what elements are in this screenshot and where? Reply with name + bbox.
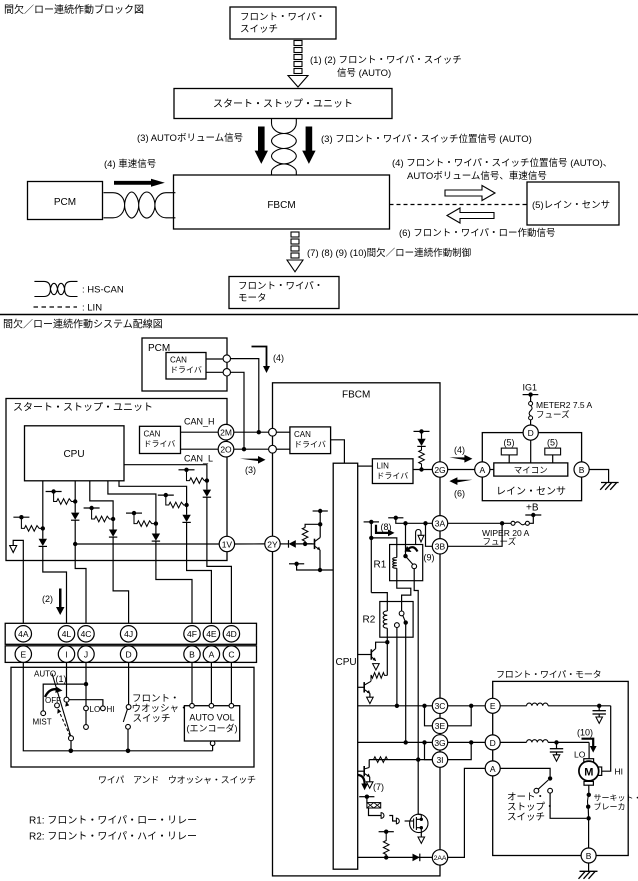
cell1 junction (41, 526, 45, 530)
cell5 diode (186, 505, 188, 515)
pin 2G (432, 462, 447, 477)
arrow (4) at PCM (252, 347, 267, 368)
svg-text:(10): (10) (577, 728, 593, 738)
svg-text:(6) フロント・ワイパ・ロー作動信号: (6) フロント・ワイパ・ロー作動信号 (399, 227, 556, 239)
IG1 tap (523, 394, 539, 396)
transistor T1 (358, 654, 372, 656)
svg-text:ドライバ: ドライバ (294, 440, 326, 449)
wire 4F jog (156, 561, 192, 626)
washer wire to rail (127, 729, 129, 751)
wire rotor to rail (70, 741, 72, 751)
svg-text:モータ: モータ (238, 293, 267, 304)
3E external branch (448, 706, 472, 726)
svg-text:HI: HI (107, 705, 115, 714)
pin 4A (15, 626, 31, 642)
1V rail (75, 543, 219, 545)
transistor T3 (368, 760, 370, 768)
junction 1V rail (73, 542, 77, 546)
PCM pin circle lower (206, 371, 223, 373)
svg-text:CAN: CAN (294, 430, 311, 439)
pin 4J (120, 626, 136, 642)
SSU CAN driver (140, 426, 181, 453)
svg-text:C: C (228, 650, 234, 660)
relay R1 box (390, 545, 423, 581)
pin D (120, 646, 136, 662)
cell6 junction (154, 521, 158, 525)
wire 2O to FBCM (234, 448, 269, 450)
cell3 diode (112, 519, 114, 530)
coupler box (366, 797, 368, 803)
svg-text:4F: 4F (187, 629, 197, 639)
connector row 2 box (5, 646, 256, 663)
svg-text:スイッチ: スイッチ (507, 812, 545, 823)
svg-text:LO: LO (90, 705, 101, 714)
wire breaker to B (588, 818, 590, 848)
3I external branch (448, 742, 472, 759)
svg-text:+B: +B (526, 503, 539, 514)
wire 4D jog (207, 561, 232, 626)
3I internal branch (425, 742, 433, 759)
svg-text:(4): (4) (273, 353, 284, 363)
contact OFF (55, 703, 60, 708)
svg-text:FBCM: FBCM (267, 200, 295, 211)
ladder arrow (1)(2) (288, 41, 308, 88)
capacitor D (556, 742, 558, 748)
pin B (184, 646, 200, 662)
relay R2 box (380, 602, 413, 638)
svg-text:R1: フロント・ワイパ・ロー・リレー: R1: フロント・ワイパ・ロー・リレー (29, 815, 197, 827)
wire PCM lower to CAN_L (231, 372, 245, 449)
pin 3I (432, 752, 447, 767)
pin 3C (432, 698, 447, 713)
svg-text:スイッチ: スイッチ (133, 714, 171, 725)
svg-text:(8): (8) (381, 522, 392, 532)
resistor (5) right (545, 448, 561, 455)
svg-text:: LIN: : LIN (82, 303, 102, 314)
junction CAN_H / PCM (257, 430, 261, 434)
wire B to ground (589, 470, 608, 483)
pin A (203, 646, 219, 662)
transistor T2 (358, 686, 365, 688)
svg-text:3G: 3G (434, 738, 445, 748)
wire to T1 collector (376, 642, 388, 649)
svg-text:CPU: CPU (336, 657, 357, 668)
wire to R1 coil (371, 538, 397, 558)
cell3 resistor (92, 508, 114, 522)
wire J down (85, 662, 87, 706)
cell2 diode (74, 502, 76, 513)
svg-text:B: B (579, 465, 585, 475)
start-stop unit box (6, 399, 227, 561)
washer contact top (126, 705, 131, 710)
LIN driver box (372, 459, 413, 484)
switch arm solid to AUTO (52, 673, 71, 735)
junction J/MIST (84, 682, 88, 686)
cell3 tap bar (84, 507, 100, 509)
circuit breaker (587, 793, 591, 797)
R2 arm (403, 616, 406, 623)
thick arrow down left (255, 127, 268, 164)
wire R2 node to resistor (386, 642, 388, 675)
twisted pair horizontal PCM-FBCM (104, 192, 176, 218)
cell4 junction (205, 478, 209, 482)
cell4 diode (206, 481, 208, 490)
R1 coil bottom to R2 NO contact (397, 568, 411, 611)
wire pivot to HI (69, 700, 103, 706)
cell1 diode (42, 528, 44, 538)
E line inductor (500, 705, 526, 707)
svg-text:A: A (209, 650, 215, 660)
wire edge to CAN driver upper (276, 431, 290, 433)
svg-text:ドライバ: ドライバ (144, 440, 176, 449)
junction CAN_L / PCM (242, 447, 246, 451)
E line down to HI (602, 706, 611, 771)
cell6 tap bar (126, 512, 142, 514)
driver tap (359, 796, 374, 798)
svg-text:スイッチ: スイッチ (240, 24, 278, 35)
mosfet Q1 (410, 814, 428, 832)
contact rotor common (69, 736, 74, 741)
junction 3B branch (423, 521, 427, 525)
gate buffer 2 (396, 818, 399, 824)
+B tap for 3A line (388, 517, 403, 519)
washer contact bottom (126, 724, 131, 729)
junction rail (69, 749, 74, 754)
cell1 resistor (21, 517, 42, 531)
FBCM CAN driver box (290, 427, 331, 454)
transistor T4 (305, 543, 314, 545)
svg-text:AUTO: AUTO (34, 670, 56, 679)
svg-text:フロント・ワイパ・: フロント・ワイパ・ (238, 281, 323, 292)
resistor T2 (371, 673, 387, 682)
T3 emitter off-page arrow (366, 782, 373, 788)
T4 tap bar (313, 510, 328, 512)
svg-text:LIN: LIN (376, 462, 389, 471)
AUTO VOL encoder box (184, 706, 239, 741)
svg-text:HI: HI (615, 767, 624, 777)
gate1 to gate2 (389, 816, 396, 822)
pin 1V (219, 536, 234, 551)
svg-text:IG1: IG1 (523, 383, 538, 393)
junction R1 common (403, 521, 407, 525)
svg-text:2Y: 2Y (267, 539, 278, 549)
pin 3A (432, 516, 447, 531)
R1 arm (406, 556, 413, 564)
lower tap bar (289, 563, 304, 565)
svg-text:E: E (490, 701, 496, 711)
junction LIN pull-up (419, 467, 423, 471)
junction E capacitor (597, 704, 601, 708)
R2 coil bottom node (386, 628, 388, 642)
pin 2M (218, 424, 234, 440)
svg-text:CPU: CPU (63, 449, 84, 460)
pin J (78, 646, 94, 662)
svg-text:(4): (4) (454, 445, 465, 455)
pin 2Y (265, 536, 280, 551)
svg-text:METER2 7.5 A: METER2 7.5 A (536, 400, 593, 410)
svg-text:CAN: CAN (170, 356, 187, 365)
svg-text:(エンコーダ): (エンコーダ) (187, 723, 238, 734)
wire 3G to D (448, 741, 486, 743)
pull-up diode (421, 431, 423, 438)
wire 1V to 2Y (235, 543, 265, 545)
wire CAN driver to 2O (181, 448, 219, 450)
AUTO VOL bottom contact (210, 741, 215, 746)
svg-text:ブレーカ: ブレーカ (594, 802, 626, 812)
svg-text:マイコン: マイコン (514, 465, 548, 475)
FBCM edge pin upper (CAN_H) (269, 428, 277, 436)
washer blade (123, 709, 127, 722)
legend HS-CAN twisted symbol (34, 281, 77, 296)
junction diode/resistor (303, 542, 307, 546)
svg-text:4D: 4D (226, 629, 237, 639)
D line inductor (500, 741, 526, 743)
svg-text:(5): (5) (504, 438, 515, 448)
pin 3B (432, 539, 447, 554)
svg-text:フューズ: フューズ (536, 410, 570, 420)
block PCM (28, 182, 103, 220)
junction at 3I line (416, 757, 420, 761)
pin A (motor) (485, 761, 500, 776)
R1 NO contact down to relay rail (414, 569, 418, 815)
contact HI (101, 706, 106, 711)
wire 2G to rain sensor A (448, 469, 475, 471)
block rain sensor (top) (527, 182, 619, 225)
wire I to pivot (66, 662, 68, 697)
gate buffer 1 (381, 813, 384, 819)
pin B (rain) (574, 462, 589, 477)
2Y pull resistor (302, 528, 308, 544)
dashed line FBCM-rain sensor (390, 204, 528, 206)
3I line from T3 (369, 759, 432, 761)
svg-text:(5)レイン・センサ: (5)レイン・センサ (532, 200, 610, 211)
front wiper motor box (493, 681, 629, 855)
ground (motor B) (588, 863, 590, 871)
SSU input cell 4: feed from CPU right edge (124, 465, 207, 481)
cell1 tap bar (13, 516, 29, 518)
svg-text:(4) フロント・ワイパ・スイッチ位置信号 (AUTO)、: (4) フロント・ワイパ・スイッチ位置信号 (AUTO)、 (392, 157, 612, 169)
svg-text:D: D (126, 650, 132, 660)
wire 4A (22, 561, 24, 626)
svg-text:(7): (7) (373, 782, 384, 792)
cell5 tap bar (158, 494, 174, 496)
svg-text:I: I (65, 650, 67, 660)
svg-text:R2: R2 (363, 615, 376, 626)
block front wiper motor (229, 277, 339, 309)
wire 3A to fuse junction (448, 522, 511, 524)
3G internal line (358, 741, 433, 743)
R2 moving contact wire down (405, 623, 407, 743)
svg-text:(5): (5) (547, 438, 558, 448)
svg-text:3C: 3C (435, 701, 446, 711)
svg-text:4J: 4J (124, 629, 133, 639)
pin 2AA (432, 850, 447, 865)
rotation arrow (1) (45, 689, 58, 697)
SSU input cell 3: feed from CPU (90, 481, 113, 519)
cell3 junction (111, 517, 115, 521)
wire 3C to E (448, 705, 486, 707)
svg-text:(9): (9) (424, 553, 435, 563)
svg-text:(1) (2) フロント・ワイパ・スイッチ: (1) (2) フロント・ワイパ・スイッチ (310, 55, 462, 66)
cell5 resistor (166, 495, 187, 508)
svg-text:2O: 2O (220, 445, 232, 455)
separator line (0, 314, 638, 316)
R1 moving contact feed (405, 523, 407, 556)
motor bottom wire (588, 785, 590, 795)
wire 2AA to A (448, 768, 486, 857)
supply to R2 coil (371, 593, 387, 611)
svg-text:4A: 4A (18, 629, 29, 639)
svg-text:AUTOボリューム信号、車速信号: AUTOボリューム信号、車速信号 (407, 170, 547, 182)
svg-text:3I: 3I (436, 755, 443, 765)
T1 emitter off-page arrow (373, 664, 380, 670)
svg-text:R1: R1 (374, 560, 387, 571)
svg-text:2AA: 2AA (434, 855, 447, 862)
svg-text:フロント・ワイパ・モータ: フロント・ワイパ・モータ (496, 670, 601, 680)
PCM CAN driver (166, 353, 206, 380)
3B external branch (448, 523, 502, 546)
pull-up tap bar (414, 430, 430, 432)
svg-text:スタート・ストップ・ユニット: スタート・ストップ・ユニット (13, 402, 153, 414)
svg-text:(4) 車速信号: (4) 車速信号 (104, 158, 156, 170)
svg-text:フロント・ワイパ・: フロント・ワイパ・ (240, 12, 325, 23)
svg-text:4E: 4E (206, 629, 217, 639)
wire LIN driver to 2G (413, 469, 432, 471)
cell2 junction (73, 499, 77, 503)
wire MIST branch (43, 684, 86, 711)
off-page arrow stub to 4A (13, 540, 23, 560)
svg-text:B: B (189, 650, 195, 660)
svg-text:1V: 1V (222, 539, 233, 549)
pin 4C (78, 626, 94, 642)
rain sensor box (482, 433, 581, 501)
svg-text:J: J (84, 650, 88, 660)
pin D (rain) (523, 425, 538, 440)
SSU input cell 6: feed from CPU bottom (108, 481, 156, 524)
svg-text:: HS-CAN: : HS-CAN (82, 285, 124, 296)
block front wiper switch (230, 7, 336, 39)
svg-text:E: E (20, 650, 26, 660)
cell2 resistor (54, 492, 76, 505)
svg-text:(3) フロント・ワイパ・スイッチ位置信号 (AUTO): (3) フロント・ワイパ・スイッチ位置信号 (AUTO) (321, 133, 532, 145)
emitter junction (318, 568, 322, 572)
svg-text:D: D (490, 738, 496, 748)
pull-up resistor vertical (419, 446, 425, 469)
resistor (5) left (501, 448, 517, 455)
svg-text:PCM: PCM (54, 197, 76, 208)
svg-text:4C: 4C (81, 629, 92, 639)
svg-text:LO: LO (574, 750, 586, 760)
pin E (15, 646, 31, 662)
mosfet source down (420, 832, 422, 837)
arrow (7) (358, 775, 365, 785)
SSU input cell 2: feed from CPU (74, 481, 76, 502)
block FBCM (174, 175, 390, 229)
fuse to +B (529, 515, 533, 523)
pin C (223, 646, 239, 662)
3C internal line (358, 705, 433, 707)
wire D down to micon (530, 440, 532, 463)
svg-text:フューズ: フューズ (483, 537, 517, 547)
junction R1 coil branch (369, 536, 373, 540)
hollow arrow right (445, 186, 495, 201)
svg-text:CAN_L: CAN_L (184, 454, 213, 464)
R2 NO contact (399, 611, 404, 616)
svg-text:間欠／ロー連続作動ブロック図: 間欠／ロー連続作動ブロック図 (4, 3, 144, 16)
mosfet drain up (418, 813, 421, 816)
cell5 junction (184, 503, 188, 507)
svg-text:B: B (586, 851, 592, 861)
pin 3E (432, 718, 447, 733)
pin A (rain) (475, 462, 490, 477)
wire CPU to LIN driver (358, 465, 373, 467)
gate2 to mosfet (405, 820, 410, 822)
svg-text:3B: 3B (435, 542, 446, 552)
METER2 fuse (530, 395, 532, 402)
svg-text:CAN: CAN (144, 430, 161, 439)
R2 coil (383, 611, 387, 628)
WIPER fuse (511, 521, 515, 525)
E cap off-page arrow (596, 717, 603, 723)
svg-text:ドライバ: ドライバ (170, 366, 202, 375)
2AA pull tap (379, 831, 394, 833)
svg-text:(3): (3) (245, 465, 256, 475)
svg-text:3A: 3A (435, 519, 446, 529)
SSU input cell 1: feed from CPU (42, 481, 44, 528)
svg-text:間欠／ロー連続作動システム配線図: 間欠／ロー連続作動システム配線図 (3, 318, 163, 331)
microcomputer box (494, 463, 568, 476)
PCM unit box (142, 338, 227, 391)
ground (rain sensor) (600, 483, 618, 490)
wire CAN driver to 2M (181, 431, 219, 433)
svg-text:2M: 2M (220, 428, 232, 438)
wire E to common rail (23, 662, 71, 750)
svg-text:R2: フロント・ワイパ・ハイ・リレー: R2: フロント・ワイパ・ハイ・リレー (29, 831, 197, 843)
pin 4E (203, 626, 219, 642)
legend LIN dashed (34, 306, 78, 308)
contact LO lower (85, 711, 87, 725)
PCM pin circle upper (206, 358, 223, 360)
pin 4D (223, 626, 239, 642)
tap wire to CPU (297, 564, 334, 570)
thick arrow right vehicle speed (114, 179, 165, 187)
2AA pull resistor (383, 832, 389, 858)
wire PCM upper to CAN_H (231, 359, 259, 433)
svg-text:(7) (8) (9) (10)間欠／ロー連続作動制御: (7) (8) (9) (10)間欠／ロー連続作動制御 (307, 247, 471, 259)
wire 4L jog (43, 561, 67, 626)
svg-text:ワイパ アンド ウオッシャ・スイッチ: ワイパ アンド ウオッシャ・スイッチ (98, 775, 256, 785)
pin 2O (218, 441, 234, 457)
wire CAN driver to CPU (331, 440, 345, 463)
3I resistor (374, 757, 388, 763)
pin D (motor) (485, 735, 500, 750)
svg-text:3E: 3E (435, 721, 446, 731)
2Y diode (280, 543, 288, 545)
contact LO (84, 706, 89, 711)
D cap off-page arrow (553, 755, 560, 761)
arrow (9) (408, 547, 418, 551)
FBCM edge pin lower (CAN_L) (269, 445, 277, 453)
T4 supply vertical (319, 511, 321, 538)
wire 2M to FBCM (234, 431, 269, 433)
svg-text:ドライバ: ドライバ (376, 472, 408, 481)
svg-text:(3) AUTOボリューム信号: (3) AUTOボリューム信号 (137, 132, 243, 144)
T2 emitter off-page arrow (367, 697, 374, 703)
cell6 diode (155, 524, 157, 534)
R2 moving contact (404, 620, 408, 624)
hook arrow at R1 (416, 530, 421, 545)
svg-text:D: D (528, 428, 534, 438)
